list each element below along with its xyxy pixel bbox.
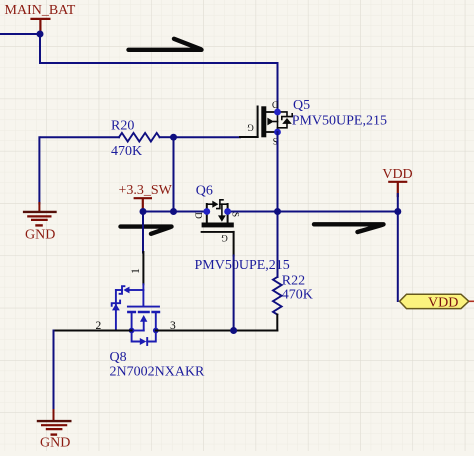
- svg-text:GND: GND: [40, 435, 70, 450]
- wire: [54, 330, 132, 332]
- svg-text:470K: 470K: [111, 144, 142, 159]
- Q5 gate plate: [257, 107, 259, 137]
- flow arrow: [314, 224, 384, 232]
- Q8 source lead: [131, 312, 133, 331]
- Q6 body arrow: [221, 204, 223, 215]
- svg-text:D: D: [194, 212, 204, 219]
- wire: [228, 211, 398, 213]
- flow arrow: [121, 227, 172, 234]
- port VDD: [400, 294, 474, 310]
- Q6 drain lead: [206, 204, 208, 223]
- node Q5 source junction: [274, 208, 281, 215]
- svg-text:+3.3_SW: +3.3_SW: [119, 183, 173, 198]
- Q6 channel bar: [202, 223, 234, 228]
- Q5 body arrow: [267, 118, 273, 126]
- svg-text:470K: 470K: [282, 287, 313, 302]
- svg-text:Q6: Q6: [196, 184, 213, 199]
- wire: [142, 212, 144, 253]
- node MAIN_BAT junction: [37, 31, 44, 38]
- svg-text:R22: R22: [282, 274, 305, 289]
- svg-text:G: G: [221, 233, 228, 243]
- Q6 gate plate: [202, 231, 234, 233]
- transistor Q5: [240, 98, 387, 146]
- Q8 gate ESD diode branch: [130, 289, 144, 291]
- Q6 drain pad: [203, 208, 210, 215]
- Q5 drain pad: [274, 109, 281, 116]
- transistor Q6: [194, 184, 290, 274]
- svg-text:R20: R20: [111, 118, 134, 133]
- Q6 body diode: [207, 200, 228, 209]
- wire: [143, 211, 207, 213]
- Q5 source pad: [274, 129, 281, 136]
- Q8 pin 1 (gate pin): [142, 252, 144, 284]
- Q8 drain lead: [155, 312, 157, 331]
- svg-text:GND: GND: [25, 227, 55, 242]
- node +3.3_SW junction: [140, 208, 147, 215]
- ground GND bottom: [38, 410, 70, 450]
- resistor R22: [273, 274, 313, 331]
- wire: [277, 63, 279, 109]
- svg-text:VDD: VDD: [382, 167, 412, 182]
- wire: [277, 132, 279, 277]
- wire: [233, 256, 235, 331]
- svg-text:1: 1: [130, 268, 142, 274]
- svg-text:VDD: VDD: [428, 295, 458, 310]
- svg-text:G: G: [247, 123, 254, 133]
- Q5 channel bar: [261, 106, 266, 137]
- svg-text:Q8: Q8: [110, 350, 127, 365]
- svg-text:MAIN_BAT: MAIN_BAT: [5, 3, 76, 18]
- node R20 right junction: [170, 134, 177, 141]
- svg-text:PMV50UPE,215: PMV50UPE,215: [195, 258, 290, 273]
- node R20 branch junction: [170, 208, 177, 215]
- Q8 drain pad: [153, 328, 159, 334]
- Q6 source pad: [224, 208, 231, 215]
- wire: [156, 330, 277, 332]
- Q5 body bridge: [277, 112, 279, 132]
- Q6 source lead: [227, 204, 229, 223]
- wire: [174, 136, 241, 138]
- Q6 gate pin: [233, 232, 235, 256]
- node Q6 gate junction: [230, 327, 237, 334]
- Q8 source pad: [129, 328, 135, 334]
- ground GND left: [24, 137, 55, 242]
- wire: [0, 33, 40, 35]
- svg-text:PMV50UPE,215: PMV50UPE,215: [292, 114, 387, 129]
- wire: [397, 194, 399, 212]
- power port MAIN_BAT: [5, 3, 76, 33]
- wire: [173, 137, 175, 211]
- svg-text:2N7002NXAKR: 2N7002NXAKR: [110, 364, 206, 379]
- svg-text:S: S: [231, 212, 241, 217]
- transistor Q8: [96, 252, 206, 379]
- power port +3.3_SW: [119, 183, 173, 210]
- Q8 body diode bottom: [132, 331, 140, 342]
- Q8 channel segments: [128, 311, 159, 313]
- svg-text:Q5: Q5: [293, 98, 310, 113]
- wire: [397, 212, 399, 302]
- Q8 body arrow: [140, 315, 147, 322]
- wire: [40, 62, 278, 64]
- Q5 drain lead: [264, 111, 278, 113]
- wire: [39, 34, 41, 63]
- node VDD junction: [394, 208, 401, 215]
- power port VDD top: [382, 167, 412, 196]
- resistor R20: [41, 118, 174, 158]
- Q8 gate plate: [128, 306, 159, 308]
- Q5 gate pin: [240, 136, 258, 138]
- Q5 body diode: [278, 112, 293, 128]
- svg-text:D: D: [271, 100, 278, 110]
- flow arrow: [129, 39, 202, 50]
- wire: [53, 331, 55, 412]
- Q8 gate lead: [142, 284, 144, 306]
- Q5 source lead: [264, 131, 278, 133]
- Q8 left branch with zener: [115, 290, 117, 331]
